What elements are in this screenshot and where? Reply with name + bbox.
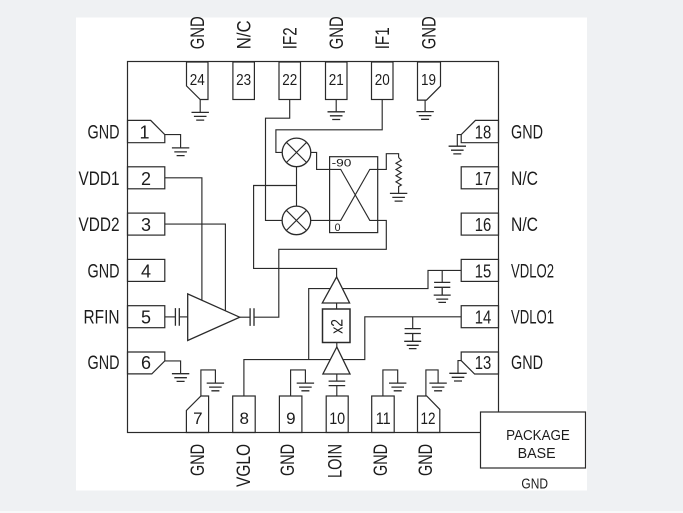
wire pin19 to ground <box>424 100 426 111</box>
svg-text:LOIN: LOIN <box>326 444 347 478</box>
svg-text:14: 14 <box>475 308 492 328</box>
svg-text:GND: GND <box>88 261 120 282</box>
ground (pin 18) <box>449 146 466 154</box>
svg-text:x2: x2 <box>327 319 346 334</box>
wire doubler to A2 <box>336 343 338 348</box>
capacitor C5 (VDLO1 bypass) to ground <box>404 329 421 349</box>
svg-text:-90: -90 <box>332 158 352 170</box>
svg-text:N/C: N/C <box>511 169 538 190</box>
pin 9 (GND) <box>279 396 302 433</box>
wire C5 stem <box>412 317 414 329</box>
svg-text:VDD2: VDD2 <box>79 215 120 236</box>
wire pin18 to ground <box>457 135 461 146</box>
svg-text:7: 7 <box>193 409 202 428</box>
90-degree hybrid U1 <box>330 157 378 234</box>
svg-text:VDLO1: VDLO1 <box>511 308 554 329</box>
svg-text:18: 18 <box>475 123 492 143</box>
pin 8 (VGLO) <box>233 396 256 433</box>
svg-text:IF2: IF2 <box>281 27 302 49</box>
wire A1 output to mixer LO feed <box>254 186 337 277</box>
pin 21 (GND) <box>326 62 348 100</box>
pin 2 (VDD1) <box>128 167 165 189</box>
chip outline <box>128 62 499 433</box>
amplifier A3 (RF input amp) <box>188 294 240 341</box>
svg-text:GND: GND <box>416 444 437 476</box>
wire VDLO2 to LO amp A1 <box>343 270 462 288</box>
wire A1 to doubler <box>336 303 338 309</box>
wire mixer M1 to hybrid -90 port <box>311 152 330 169</box>
ground (pin 24) <box>192 112 209 120</box>
pin 13 (GND) <box>461 352 498 374</box>
package base box <box>481 412 586 468</box>
wire RFIN to input capacitor <box>165 316 175 318</box>
svg-text:GND: GND <box>521 477 548 493</box>
wire pin22 to mixer M2 <box>266 100 290 221</box>
wire LO feed between mixers <box>296 167 298 206</box>
svg-text:GND: GND <box>420 16 441 49</box>
wire C4 stem <box>441 270 443 282</box>
wire RF amp output to capacitor C2 <box>240 316 250 318</box>
svg-text:GND: GND <box>511 353 543 374</box>
svg-text:1: 1 <box>139 123 149 143</box>
svg-text:22: 22 <box>282 72 297 89</box>
svg-text:11: 11 <box>376 409 391 428</box>
ground (pin 21) <box>328 112 345 120</box>
ground (pin 19) <box>416 112 433 120</box>
wire pin11 to ground <box>383 370 398 396</box>
svg-text:12: 12 <box>421 409 436 428</box>
ground (pin 11) <box>389 383 406 391</box>
svg-text:16: 16 <box>475 215 492 235</box>
capacitor C1 (RF input, series) <box>175 308 179 326</box>
pin 20 (IF1) <box>372 62 394 100</box>
svg-text:6: 6 <box>141 353 151 373</box>
resistor R1 (image termination) <box>396 158 401 194</box>
pin 17 (N/C) <box>461 167 498 189</box>
svg-text:2: 2 <box>141 169 151 189</box>
wire pin7 to ground <box>201 370 216 396</box>
svg-text:GND: GND <box>188 16 209 49</box>
svg-text:5: 5 <box>141 308 151 328</box>
wire pin24 to ground <box>199 100 201 113</box>
ground (R1) <box>390 193 407 201</box>
wire pin20 to mixer M1 <box>276 100 382 153</box>
svg-text:GND: GND <box>188 444 209 476</box>
wire hybrid image port to resistor R1 <box>378 154 399 170</box>
wire pin1 to ground <box>165 135 181 148</box>
wire VGLO bias line to LO amps <box>244 289 331 396</box>
svg-text:4: 4 <box>141 261 151 281</box>
pin 3 (VDD2) <box>128 213 165 235</box>
wire C6 to LO amp A2 <box>336 374 338 381</box>
svg-text:3: 3 <box>141 215 151 235</box>
wire VDD1 to RF amp <box>165 178 202 300</box>
svg-text:GND: GND <box>88 353 120 374</box>
wire mixer M2 to hybrid 0 port <box>311 219 330 221</box>
pin 22 (IF2) <box>279 62 301 100</box>
svg-text:10: 10 <box>329 409 345 428</box>
svg-text:VGLO: VGLO <box>234 444 255 487</box>
ground (pin 9) <box>297 383 314 391</box>
wire VDLO1 to LO amp A2 <box>343 317 461 360</box>
wire VDD2 to RF amp <box>165 224 226 311</box>
frequency doubler x2 <box>323 309 351 343</box>
svg-text:BASE: BASE <box>518 446 556 462</box>
amplifier A2 (LO amp, lower) <box>323 347 350 374</box>
svg-text:24: 24 <box>190 72 205 89</box>
wire pin6 to ground <box>165 361 181 374</box>
wire C1 to RF amp <box>180 316 188 318</box>
mixer M1 <box>282 138 311 167</box>
ground (pin 1) <box>172 148 189 156</box>
svg-text:GND: GND <box>88 123 120 144</box>
svg-text:0: 0 <box>335 222 341 234</box>
pin 10 (LOIN) <box>326 396 348 433</box>
pin 15 (VDLO2) <box>461 259 498 281</box>
ground (pin 12) <box>429 383 446 391</box>
pin 14 (VDLO1) <box>461 306 498 328</box>
svg-text:20: 20 <box>375 72 390 89</box>
wire pin9 to ground <box>291 370 306 396</box>
svg-text:GND: GND <box>511 123 543 144</box>
svg-text:VDD1: VDD1 <box>79 169 120 190</box>
svg-text:GND: GND <box>371 444 392 476</box>
svg-text:9: 9 <box>286 409 295 428</box>
svg-text:GND: GND <box>327 16 348 49</box>
ground (pin 6) <box>172 374 189 382</box>
svg-text:VDLO2: VDLO2 <box>511 261 554 282</box>
amplifier A1 (LO amp, upper) <box>322 277 349 303</box>
svg-text:GND: GND <box>278 444 299 476</box>
svg-text:RFIN: RFIN <box>84 308 120 329</box>
capacitor C6 (LO input, series) <box>329 381 346 386</box>
pin 6 (GND) <box>128 352 165 374</box>
pin 24 (GND) <box>187 62 209 100</box>
mixer M2 <box>282 206 311 235</box>
svg-text:N/C: N/C <box>511 215 538 236</box>
svg-text:15: 15 <box>475 261 492 281</box>
wire pin13 to ground <box>458 361 461 373</box>
pin 7 (GND) <box>186 396 208 433</box>
wire LOIN to capacitor C6 <box>336 386 338 396</box>
svg-text:23: 23 <box>236 72 251 89</box>
svg-text:19: 19 <box>421 72 436 89</box>
svg-text:21: 21 <box>329 72 344 89</box>
ground (pin 7) <box>207 383 224 391</box>
pin 12 (GND) <box>418 396 440 433</box>
pin 16 (N/C) <box>461 213 498 235</box>
pin 18 (GND) <box>461 120 498 142</box>
capacitor C2 (RF output, series) <box>250 308 254 326</box>
svg-text:PACKAGE: PACKAGE <box>506 428 570 444</box>
ground (pin 13) <box>449 373 466 381</box>
pin 4 (GND) <box>128 259 165 281</box>
svg-text:13: 13 <box>475 353 492 373</box>
svg-text:17: 17 <box>475 169 492 189</box>
pin 5 (RFIN) <box>128 306 165 328</box>
pin 23 (N/C) <box>233 62 255 100</box>
svg-text:8: 8 <box>239 409 248 428</box>
capacitor C4 (VDLO2 bypass) to ground <box>434 282 451 302</box>
pin 11 (GND) <box>372 396 395 433</box>
pin 1 (GND) <box>128 120 165 142</box>
svg-text:IF1: IF1 <box>373 27 394 49</box>
wire C2 to hybrid RF port <box>254 220 386 317</box>
pin 19 (GND) <box>418 62 441 100</box>
svg-text:N/C: N/C <box>235 20 256 49</box>
wire pin12 to ground <box>426 370 438 396</box>
wire pin21 to ground <box>335 100 337 112</box>
